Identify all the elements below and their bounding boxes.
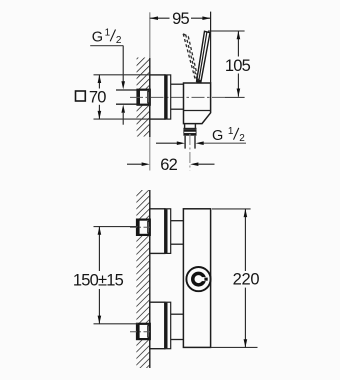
svg-text:2: 2	[239, 133, 245, 144]
top union escutcheon plate	[150, 209, 165, 254]
lever dashed alternate position	[183, 34, 198, 81]
dimension 220	[211, 209, 260, 348]
outlet pipe centerline	[189, 134, 191, 170]
svg-text:2: 2	[116, 35, 122, 46]
wall face line top view	[149, 12, 151, 58]
top union front ring	[165, 209, 171, 254]
wall hatching top view	[137, 58, 150, 137]
outlet pipe	[185, 136, 195, 149]
bottom inlet centerline	[130, 331, 150, 333]
svg-text:150±15: 150±15	[73, 272, 124, 290]
centerline horizontal	[130, 96, 226, 98]
body joint line	[184, 110, 211, 112]
svg-text:62: 62	[160, 156, 177, 174]
lever solid	[196, 31, 210, 82]
svg-text:95: 95	[172, 10, 189, 28]
svg-text:1: 1	[105, 28, 111, 39]
label G 1/2 top	[90, 28, 125, 125]
dimension 150±15	[73, 227, 138, 324]
escutcheon plate	[150, 75, 165, 119]
svg-text:220: 220	[233, 271, 260, 289]
dimension 95	[150, 10, 211, 83]
wall face line bottom view	[149, 190, 151, 368]
bottom union front ring	[165, 302, 171, 349]
faucet body	[184, 83, 211, 124]
outlet nut	[183, 129, 196, 136]
dimension square 70	[76, 75, 150, 119]
dimension 62	[127, 156, 215, 174]
faucet body front	[183, 209, 210, 348]
top inlet hex nut	[137, 220, 150, 235]
bottom union connector	[171, 314, 184, 339]
wall face extension (62 dim)	[149, 137, 151, 171]
connector piece	[171, 84, 184, 109]
escutcheon front ring	[165, 75, 171, 119]
svg-text:70: 70	[89, 88, 106, 106]
bottom inlet hex nut	[137, 324, 150, 339]
inlet union square	[138, 90, 150, 105]
svg-text:G: G	[92, 30, 103, 46]
GROHE logo	[186, 267, 210, 291]
svg-text:105: 105	[225, 57, 251, 75]
inlet supply pipe lines	[116, 89, 138, 91]
wall hatching bottom view	[136, 190, 149, 368]
outlet neck	[183, 124, 196, 129]
dimension 105	[208, 31, 251, 97]
bottom union escutcheon plate	[150, 302, 165, 349]
top union connector	[171, 221, 184, 245]
svg-text:G: G	[212, 128, 223, 144]
svg-text:1: 1	[228, 126, 234, 137]
label G 1/2 bottom	[156, 126, 246, 145]
top inlet centerline	[130, 226, 150, 228]
